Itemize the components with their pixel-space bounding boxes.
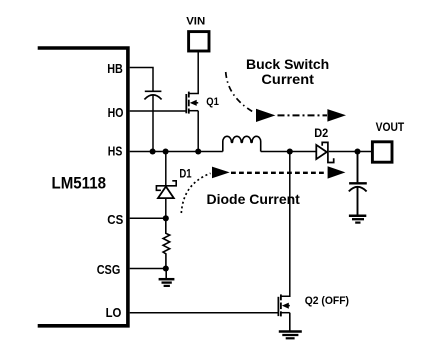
wire Q2 source to ground (289, 313, 291, 331)
wire switch node to Q2 drain (281, 152, 290, 297)
svg-text:HO: HO (108, 105, 124, 120)
ground at CSG (159, 269, 175, 286)
transistor Q2 (low-side NMOS, off) (278, 294, 289, 316)
annotation buck switch current dash-dot line (278, 114, 328, 116)
label VIN (186, 15, 205, 27)
node VOUT at output capacitor (354, 148, 360, 154)
wire CS pin to sense resistor (130, 217, 166, 219)
diode D1 (freewheel schottky, cathode up) (156, 152, 176, 219)
wire Q1 source to HS node (197, 111, 199, 152)
bootstrap capacitor C1 (HB to HS) (144, 91, 161, 99)
svg-text:Buck Switch: Buck Switch (246, 56, 329, 72)
svg-text:Q1: Q1 (206, 96, 219, 108)
wire inductor to D2 anode (261, 151, 316, 153)
node CS (163, 215, 169, 221)
node HS at D1 (163, 148, 169, 154)
svg-text:CSG: CSG (97, 262, 121, 277)
terminal VIN box (189, 32, 209, 51)
pin label LO (106, 305, 122, 320)
wire HO pin to Q1 gate (130, 110, 187, 112)
pin label HO (108, 105, 124, 120)
pin label CSG (97, 262, 121, 277)
svg-text:CS: CS (107, 212, 123, 227)
label Q1 (206, 96, 219, 108)
ground at Q2 source (279, 332, 302, 339)
node HS at bootstrap capacitor (150, 148, 156, 154)
annotation diode current curve (181, 173, 210, 213)
label Q2 (OFF) (305, 295, 349, 307)
wire CSG pin (130, 268, 166, 270)
IC U1 LM5118 outline (38, 48, 128, 326)
svg-text:HS: HS (108, 144, 123, 159)
annotation text Buck Switch Current (246, 56, 329, 87)
label D1 (179, 169, 192, 181)
pin label CS (107, 212, 123, 227)
diode D2 (output schottky) (316, 142, 333, 162)
annotation buck switch current arrowhead 1 (256, 109, 275, 122)
svg-text:VIN: VIN (186, 15, 205, 27)
wire HS rail (IC to inductor) (130, 151, 223, 153)
label D2 (314, 128, 328, 140)
svg-text:VOUT: VOUT (376, 120, 405, 134)
svg-text:D1: D1 (179, 169, 192, 181)
svg-text:Diode Current: Diode Current (207, 191, 301, 207)
node CSG (163, 265, 169, 271)
wire bootstrap capacitor to HS node (152, 95, 154, 151)
wire LO pin to Q2 gate (130, 312, 279, 314)
resistor R1 (current sense) (163, 218, 170, 268)
ground at output capacitor (349, 216, 366, 223)
svg-text:Current: Current (261, 71, 314, 87)
node HS at Q1 source (195, 148, 201, 154)
svg-text:LM5118: LM5118 (52, 175, 107, 193)
pin label HB (107, 61, 123, 76)
transistor Q1 (high-side NMOS) (186, 92, 198, 114)
annotation diode current dashed line (231, 172, 327, 174)
pin label HS (108, 144, 123, 159)
label VOUT (376, 120, 405, 134)
svg-text:LO: LO (106, 305, 122, 320)
terminal VOUT box (372, 142, 392, 162)
wire VIN to Q1 drain (189, 52, 198, 93)
svg-text:Q2 (OFF): Q2 (OFF) (305, 295, 349, 307)
svg-text:D2: D2 (314, 128, 328, 140)
annotation buck switch current arrowhead 2 (327, 109, 346, 122)
annotation diode current arrowhead 1 (212, 167, 230, 179)
inductor L1 (223, 136, 261, 151)
wire HB pin to bootstrap capacitor (130, 68, 153, 91)
annotation diode current arrowhead 2 (328, 166, 346, 178)
annotation text Diode Current (207, 191, 301, 207)
node switch at Q2 branch (287, 148, 293, 154)
wire VOUT node to output capacitor (357, 152, 359, 183)
IC label LM5118 (52, 175, 107, 193)
wire D2 cathode to VOUT (329, 151, 371, 153)
annotation buck switch current curve (226, 72, 254, 113)
output capacitor C2 (349, 183, 367, 214)
svg-text:HB: HB (107, 61, 123, 76)
